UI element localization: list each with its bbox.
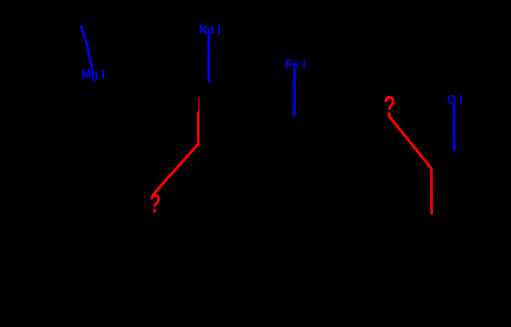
wire Fe I pointer line <box>293 69 296 117</box>
svg-text:Na I: Na I <box>199 22 221 37</box>
wire red thin segment above left red path <box>198 97 200 112</box>
wire left red bent pointer line <box>153 112 199 196</box>
svg-text:Mg I: Mg I <box>82 67 105 82</box>
svg-text:?: ? <box>149 189 161 219</box>
wire right red bent pointer line <box>388 115 431 214</box>
wire O I pointer line <box>453 104 456 151</box>
wire Mg I pointer line <box>81 25 93 71</box>
wire Na I pointer line <box>208 35 211 82</box>
